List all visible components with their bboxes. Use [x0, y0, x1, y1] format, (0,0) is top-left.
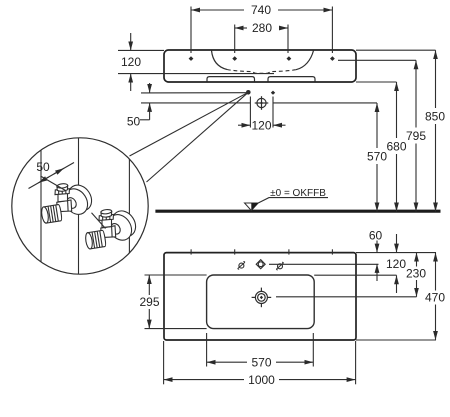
leader line lower from detail circle	[147, 92, 249, 182]
svg-text:120: 120	[121, 55, 141, 69]
elevation level leader 680	[356, 81, 397, 83]
plan view: outer rect	[164, 253, 356, 340]
dim 740: extension line right	[331, 7, 333, 54]
plan view: inner basin	[207, 275, 315, 329]
dim 120 left: lower arrow	[130, 74, 132, 91]
front drain crosshair	[255, 96, 269, 110]
flange disk back rim	[64, 181, 97, 215]
supply level line (630)	[141, 92, 246, 94]
svg-text:50: 50	[127, 115, 141, 129]
plan fixing hole tick 3	[288, 249, 290, 254]
dim 50 left: lower arrow	[149, 103, 151, 120]
bonnet nut	[55, 189, 69, 195]
plan top edge extension	[356, 252, 436, 254]
elevation level leader 795	[338, 59, 416, 61]
svg-text:120: 120	[386, 257, 406, 271]
plan tap hole right	[278, 264, 283, 269]
dim 295: dimension line	[148, 275, 150, 295]
dim 850 elevation	[435, 50, 437, 108]
front view: fixing hole diamond 2	[232, 56, 237, 61]
dim 120 left: upper arrow	[130, 33, 132, 50]
second supply diamond	[271, 91, 275, 95]
front view: fixing hole diamond 4	[330, 56, 335, 61]
plan bottom edge extension	[356, 339, 436, 341]
svg-text:280: 280	[252, 21, 272, 35]
svg-text:470: 470	[425, 291, 445, 305]
tap hole level leader	[269, 263, 379, 265]
knurled knob	[41, 204, 63, 223]
dim 50 left: upper arrow	[149, 83, 151, 93]
svg-text:±0 = OKFFB: ±0 = OKFFB	[270, 188, 326, 199]
front view: inner basin left solid curve	[212, 51, 228, 70]
svg-text:850: 850	[425, 110, 445, 124]
angle valve 1	[41, 181, 97, 224]
front view: bottom foot tab right	[268, 77, 315, 82]
valve body	[57, 200, 72, 212]
svg-text:50: 50	[36, 160, 50, 174]
plan tap hole center	[256, 260, 265, 269]
dim 280: extension line left	[234, 25, 236, 54]
dim 1000: extensions	[163, 341, 165, 384]
dim 60 plan	[376, 241, 378, 253]
dim 470 plan	[435, 253, 437, 291]
wall line 3	[128, 137, 130, 275]
leader line upper from detail circle	[130, 92, 249, 156]
svg-text:570: 570	[367, 150, 387, 164]
basin top level leader	[314, 274, 396, 276]
svg-text:295: 295	[139, 295, 159, 309]
svg-text:120: 120	[251, 119, 271, 133]
dim 230 plan	[416, 253, 418, 267]
svg-text:570: 570	[251, 355, 271, 369]
svg-text:680: 680	[386, 140, 406, 154]
angle valve 2	[85, 207, 141, 250]
front view: washbasin outline	[164, 50, 356, 82]
bonnet cap	[57, 186, 68, 192]
dim 680 elevation	[396, 82, 398, 138]
dim 120 bottom: right arrow	[273, 124, 286, 126]
detail circle	[12, 138, 148, 274]
plan fixing hole tick 4	[331, 249, 333, 254]
flange hub	[65, 196, 78, 210]
svg-text:740: 740	[251, 3, 271, 17]
front view: bottom foot tab left	[207, 77, 255, 82]
supply connection point dot	[246, 90, 251, 95]
dim 570 plan: extensions	[206, 333, 208, 367]
drain level leader	[276, 296, 417, 298]
plan tap hole left	[239, 263, 244, 268]
floor line	[155, 210, 440, 213]
dim 570 plan: dimension line	[207, 361, 247, 363]
dim 1000: dimension line	[164, 379, 244, 381]
bonnet neck	[58, 193, 68, 202]
dim 280: dimension line	[235, 27, 247, 29]
wall line 1	[40, 137, 42, 275]
flange disk face	[60, 184, 93, 218]
plan fixing hole tick 2	[234, 249, 236, 254]
plan fixing hole tick 1	[190, 249, 192, 254]
dim 740: extension line left	[190, 7, 192, 54]
dim 280: extension line right	[287, 25, 289, 54]
dim 295: extension bottom	[145, 328, 207, 330]
alignment line between valves	[92, 213, 106, 229]
level line 570 right segment	[273, 102, 377, 104]
front view: inner basin right solid curve	[296, 51, 314, 70]
dim 740: dimension line	[191, 9, 244, 11]
dim 570 elevation	[376, 103, 378, 148]
plan drain symbol	[252, 288, 272, 308]
svg-text:230: 230	[406, 267, 426, 281]
floor label leader	[258, 198, 328, 203]
svg-text:60: 60	[369, 229, 383, 243]
front view: fixing hole diamond 1	[189, 56, 194, 61]
elevation level leader 850	[356, 49, 436, 51]
front view: inner basin hidden bottom (dashed)	[227, 70, 296, 74]
dim 120 plan	[396, 234, 398, 253]
detail dim 50: extension line	[41, 176, 66, 191]
front view: ledge line under basin	[118, 73, 274, 75]
svg-text:795: 795	[406, 129, 426, 143]
floor level symbol	[245, 203, 259, 211]
detail dim 50: dimension line	[29, 163, 75, 189]
wall line 2	[78, 137, 80, 275]
front view: fixing hole diamond 3	[287, 56, 292, 61]
dim 795 elevation	[415, 60, 417, 127]
dim 120 bottom: left arrow	[238, 124, 250, 126]
dim 120 bottom: extension left	[249, 97, 251, 128]
svg-text:1000: 1000	[248, 373, 275, 387]
dim 120 left: extension line top	[118, 49, 164, 51]
level line 570 left segment	[141, 102, 250, 104]
dim 120 bottom: extension right	[272, 97, 274, 128]
dim 295: extension top	[145, 274, 207, 276]
dim 50 left: label leader	[140, 119, 150, 121]
